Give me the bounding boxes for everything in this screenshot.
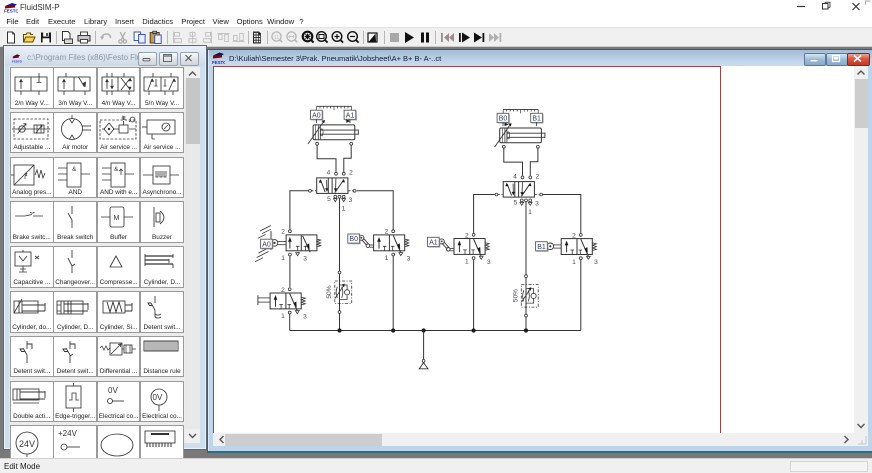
valve V2 5/2-way double pilot valve (cylinder B)	[495, 173, 542, 216]
svg-text:2: 2	[385, 229, 389, 236]
stub A1 box to ruler	[349, 119, 351, 123]
junction node B0 / bus	[391, 328, 395, 332]
svg-text:2: 2	[572, 232, 576, 239]
svg-text:1: 1	[385, 255, 389, 262]
cylinder B port right	[537, 145, 540, 148]
valve A0 roller plunger	[271, 240, 286, 247]
wire valve B1 port 1 to supply bus	[580, 260, 582, 331]
valve A1 roller lever	[439, 239, 454, 251]
wire V2 left pilot to limit valve A1 port 2	[474, 195, 495, 234]
valve B0 spring return	[405, 239, 409, 247]
vertical scrollbar	[854, 66, 868, 433]
cylinder A cushion adjust arrow	[308, 120, 325, 144]
svg-text:50%: 50%	[512, 289, 519, 302]
svg-text:B1: B1	[537, 244, 546, 251]
wire valve A1 port 1 to supply bus	[473, 260, 475, 331]
svg-text:5: 5	[327, 196, 331, 203]
steps	[441, 33, 454, 42]
svg-text:2: 2	[536, 173, 540, 180]
wire start valve port 1 to supply bus	[289, 313, 291, 330]
svg-text:1: 1	[572, 259, 576, 266]
valve B1 spring return	[593, 243, 597, 251]
cut	[119, 32, 127, 43]
svg-text:2: 2	[281, 229, 285, 236]
junction node FC-A / bus	[337, 328, 341, 332]
grid table	[253, 32, 261, 44]
limit valve A1 3/2-way roller lever (rest)	[454, 232, 491, 266]
wire V2 port 1 down to supply bus	[525, 202, 527, 331]
wire V2 right pilot to limit valve B1 port 2	[543, 195, 581, 234]
svg-text:FESTO: FESTO	[212, 60, 225, 65]
svg-text:A1: A1	[429, 239, 438, 246]
start valve plunger actuator	[258, 295, 270, 305]
compressed air source	[419, 360, 428, 369]
wire V1 right pilot to limit valve B0 port 2	[357, 191, 393, 230]
play	[405, 32, 414, 43]
svg-text:+24V: +24V	[58, 429, 78, 438]
page margin lines	[213, 66, 721, 67]
separators	[57, 31, 436, 44]
junction node FC-B / bus	[524, 328, 528, 332]
svg-text:0V: 0V	[153, 393, 163, 402]
svg-text:B0: B0	[349, 236, 358, 243]
svg-text:1: 1	[528, 209, 532, 216]
limit valve A0 3/2-way roller (actuated, passing)	[281, 229, 320, 263]
valve V1 5/2-way double pilot valve (cylinder A)	[309, 170, 356, 213]
valve A1 name box	[428, 237, 440, 247]
cylinder A port right	[350, 142, 353, 145]
svg-text:4: 4	[327, 170, 331, 177]
cylinder B (double acting with cushioning)	[500, 128, 545, 143]
svg-text:&: &	[72, 166, 77, 173]
stub B1 box to ruler	[536, 122, 538, 126]
svg-text:0V: 0V	[108, 386, 118, 395]
junction node A1 / bus	[472, 328, 476, 332]
cylinder B port left	[502, 145, 505, 148]
svg-text:B1: B1	[532, 115, 541, 122]
svg-text:3: 3	[594, 259, 598, 266]
wire valve A0 port 1 to start valve port 2	[289, 256, 291, 287]
checkbox	[368, 33, 377, 42]
valve B1 name box	[536, 242, 548, 252]
wire air source to bus	[423, 331, 425, 360]
limit valve B1 roller plunger	[547, 243, 561, 250]
label A1 (cylinder A extended position)	[344, 110, 356, 120]
wire V1 left pilot to limit valve A0 port 2	[290, 191, 309, 230]
print	[78, 32, 90, 43]
svg-text:2: 2	[465, 232, 469, 239]
page setup	[63, 32, 73, 44]
horizontal scrollbar	[213, 433, 868, 446]
library scrollbar	[185, 67, 200, 443]
wire cylinder B left port to valve V2 port 4	[504, 148, 523, 176]
label B1 (cylinder B extended position)	[531, 113, 543, 123]
svg-text:FESTO: FESTO	[12, 59, 22, 63]
aligns	[174, 32, 245, 44]
start valve 3/2-way with plunger (manual)	[270, 287, 307, 321]
start valve spring return	[302, 297, 306, 305]
valve A0 cam rail (hatched)	[255, 226, 271, 262]
distance rule for cylinder B	[503, 109, 538, 113]
zoom lenses	[272, 32, 282, 42]
piston position marker cylinder A	[346, 119, 350, 122]
svg-text:3: 3	[303, 255, 307, 262]
svg-text:4: 4	[513, 173, 517, 180]
new	[8, 32, 15, 43]
svg-text:1: 1	[281, 313, 285, 320]
valve A1 spring return	[485, 243, 489, 251]
svg-text:1: 1	[281, 255, 285, 262]
svg-text:FESTO: FESTO	[4, 9, 18, 14]
svg-text:&: &	[114, 166, 119, 173]
one-way flow control valve 50% (B group)	[512, 275, 538, 317]
cylinder B cushion adjust arrow	[495, 123, 512, 147]
paste	[150, 31, 161, 43]
wire cylinder A right port to valve V1 port 2	[344, 145, 351, 172]
svg-text:B0: B0	[499, 115, 508, 122]
svg-text:5: 5	[514, 200, 518, 207]
one-way flow control valve 50% (A group)	[326, 271, 352, 313]
svg-text:2: 2	[349, 170, 353, 177]
wire valve B0 port 1 to supply bus	[392, 256, 394, 331]
wire cylinder A left port to valve V1 port 4	[317, 145, 336, 172]
stub B0 box to ruler	[502, 122, 504, 126]
limit valve B1 3/2-way roller (rest)	[561, 232, 598, 266]
svg-text:3: 3	[487, 259, 491, 266]
cylinder A port left	[316, 142, 319, 145]
cylinder A (double acting with cushioning)	[313, 125, 358, 140]
label A0 (cylinder A retracted position)	[311, 110, 323, 120]
save	[41, 33, 51, 43]
undo	[100, 34, 111, 40]
wire V1 port 1 down to supply bus	[339, 198, 341, 330]
stub A0 box to ruler	[315, 119, 317, 123]
distance rule for cylinder A	[317, 106, 352, 110]
svg-text:2: 2	[281, 287, 285, 294]
supply bus wire	[290, 330, 581, 332]
valve B0 name box	[348, 234, 360, 244]
label B0 (cylinder B retracted position)	[497, 113, 509, 123]
valve A0 name box	[261, 239, 273, 249]
stop	[390, 33, 399, 42]
svg-text:A0: A0	[312, 112, 321, 119]
piston position marker cylinder B	[505, 123, 509, 126]
svg-text:3: 3	[349, 197, 353, 204]
open	[24, 33, 36, 42]
svg-text:50%: 50%	[326, 285, 333, 298]
svg-text:3: 3	[535, 201, 539, 208]
svg-text:1: 1	[342, 205, 346, 212]
valve B0 roller lever	[359, 235, 374, 247]
copy	[134, 32, 145, 43]
svg-text:1: 1	[465, 259, 469, 266]
pause	[421, 33, 429, 43]
svg-text:24V: 24V	[19, 439, 35, 449]
wire cylinder B right port to valve V2 port 2	[530, 148, 538, 176]
svg-text:A1: A1	[346, 112, 355, 119]
svg-text:M: M	[113, 215, 119, 222]
limit valve B0 3/2-way roller lever (rest)	[374, 229, 411, 263]
svg-text:3: 3	[407, 255, 411, 262]
junction node air source / bus	[422, 328, 426, 332]
svg-text:11: 11	[274, 35, 279, 41]
svg-text:3: 3	[303, 314, 307, 321]
svg-text:A0: A0	[262, 241, 271, 248]
